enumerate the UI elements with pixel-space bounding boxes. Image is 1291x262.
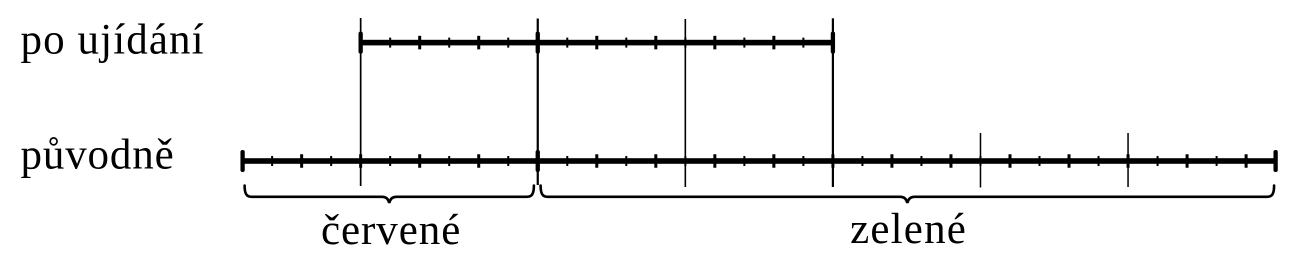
bottom line major tick at 15u <box>1127 154 1130 168</box>
vertical guide line at 2u <box>360 18 362 186</box>
bottom line major tick at 4u <box>477 154 480 168</box>
bottom line major tick at 3u <box>418 154 421 168</box>
bottom line minor tick at 1.5u <box>330 156 332 166</box>
top line cap at 5u <box>536 32 540 54</box>
svg-text:původně: původně <box>21 132 175 179</box>
top line minor tick at 4.5u <box>507 38 509 48</box>
top line minor tick at 6.5u <box>625 38 627 48</box>
top line minor tick at 3.5u <box>448 38 450 48</box>
bottom line major tick at 16u <box>1186 154 1189 168</box>
bottom line minor tick at 9.5u <box>802 156 804 166</box>
bottom line minor tick at 8.5u <box>743 156 745 166</box>
vertical guide line at 7.5u <box>685 19 687 187</box>
bottom line minor tick at 4.5u <box>507 156 509 166</box>
top line right end cap at 10u <box>831 32 835 54</box>
bottom line major tick at 1u <box>300 154 303 168</box>
bottom line minor tick at 15.5u <box>1157 156 1159 166</box>
vertical guide line at 15u <box>1127 133 1129 187</box>
bottom number line (původně), from 0 to 17.5u <box>243 158 1276 164</box>
bottom line major tick at 13u <box>1008 154 1011 168</box>
bottom line minor tick at 0.5u <box>271 156 273 166</box>
bottom line minor tick at 5.5u <box>566 156 568 166</box>
bottom line cap at 5u (red/green split) <box>536 150 540 172</box>
bottom line major tick at 17u <box>1245 154 1248 168</box>
top line major tick at 8u <box>713 36 716 50</box>
top line left end cap at 2u <box>359 32 363 54</box>
top line major tick at 4u <box>477 36 480 50</box>
bottom line minor tick at 10.5u <box>861 156 863 166</box>
top line major tick at 6u <box>595 36 598 50</box>
bottom line major tick at 2u <box>359 154 362 168</box>
bottom line minor tick at 3.5u <box>448 156 450 166</box>
bottom line right end cap at 17.5u <box>1273 150 1277 172</box>
top line major tick at 9u <box>772 36 775 50</box>
bottom line major tick at 10u <box>831 154 834 168</box>
bottom line minor tick at 12.5u <box>979 156 981 166</box>
bottom line major tick at 12u <box>949 154 952 168</box>
top line major tick at 3u <box>418 36 421 50</box>
top line minor tick at 8.5u <box>743 38 745 48</box>
svg-text:červené: červené <box>321 207 461 254</box>
top number line (po ujídání), from 2u to 10u <box>361 40 833 46</box>
bottom line minor tick at 2.5u <box>389 156 391 166</box>
vertical guide line at 5u <box>537 19 539 186</box>
bottom line major tick at 8u <box>713 154 716 168</box>
bottom line minor tick at 14.5u <box>1098 156 1100 166</box>
svg-text:po ujídání: po ujídání <box>21 17 205 64</box>
underbrace "zelené" spanning 5..17.5u <box>541 186 1275 204</box>
svg-text:zelené: zelené <box>850 206 967 253</box>
bottom line major tick at 14u <box>1068 154 1071 168</box>
bottom line minor tick at 11.5u <box>920 156 922 166</box>
top line minor tick at 9.5u <box>802 38 804 48</box>
bottom line minor tick at 16.5u <box>1216 156 1218 166</box>
vertical guide line at 10u <box>832 18 834 187</box>
bottom line major tick at 9u <box>772 154 775 168</box>
top line minor tick at 5.5u <box>566 38 568 48</box>
top line major tick at 7u <box>654 36 657 50</box>
bottom line major tick at 6u <box>595 154 598 168</box>
bottom line left end cap at 0 <box>240 150 244 172</box>
top line minor tick at 2.5u <box>389 38 391 48</box>
vertical guide line at 12.5u <box>980 133 982 188</box>
bottom line minor tick at 13.5u <box>1039 156 1041 166</box>
bottom line major tick at 7u <box>654 154 657 168</box>
underbrace "červené" spanning 0..5u <box>245 186 534 204</box>
bottom line minor tick at 6.5u <box>625 156 627 166</box>
bottom line minor tick at 7.5u <box>684 156 686 166</box>
top line minor tick at 7.5u <box>684 38 686 48</box>
bottom line major tick at 11u <box>890 154 893 168</box>
